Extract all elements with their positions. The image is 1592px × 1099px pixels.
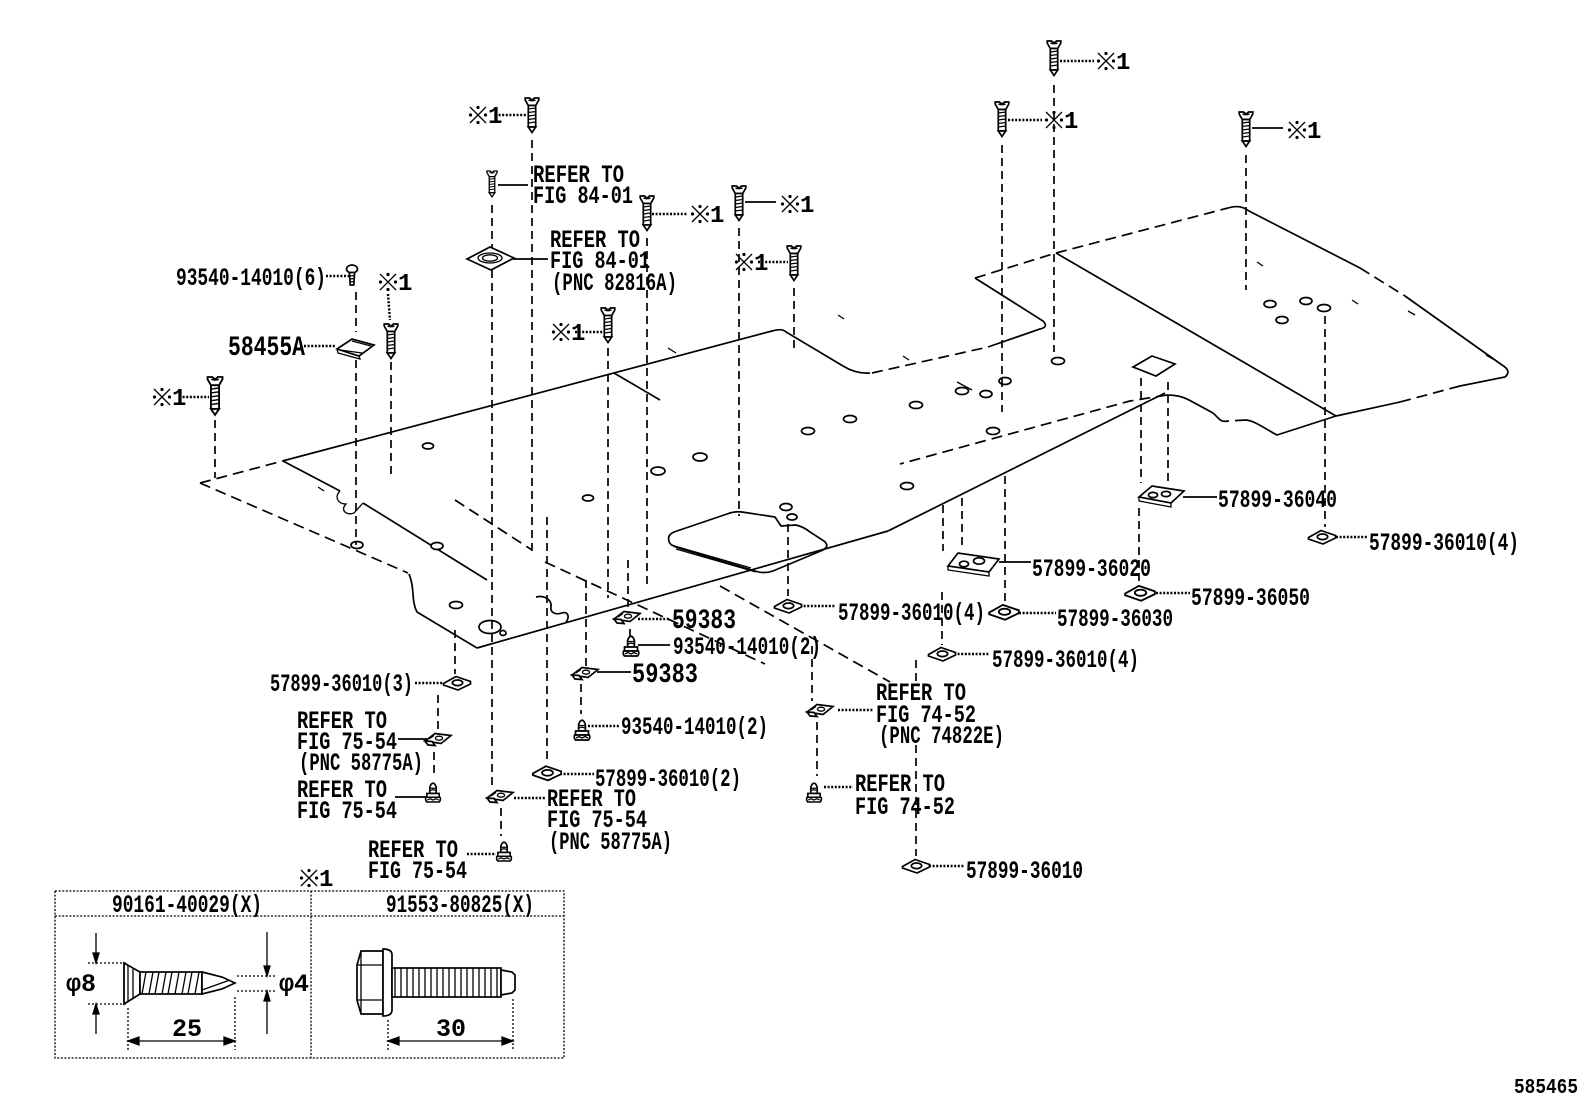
leader 36010(2) dotted bbox=[560, 773, 594, 775]
fold line curl detail bbox=[337, 491, 363, 514]
leader S11 dotted bbox=[179, 396, 209, 398]
svg-text:30: 30 bbox=[436, 1015, 466, 1044]
dimension phi8 bbox=[88, 933, 126, 1034]
svg-text:1: 1 bbox=[1064, 109, 1078, 136]
drop below 58455A bbox=[355, 360, 357, 545]
drop below S7 bbox=[1053, 85, 1055, 352]
svg-text:(PNC 82816A): (PNC 82816A) bbox=[552, 269, 677, 298]
plate 57899-36050 bbox=[1125, 586, 1155, 601]
svg-text:57899-36010(3): 57899-36010(3) bbox=[270, 670, 413, 699]
leader grommet to refer fig84-01 bbox=[513, 258, 548, 260]
leader 36010(4) left dotted bbox=[800, 605, 836, 607]
drop to clip 75-54 upper bbox=[437, 695, 439, 731]
leader 93540(6) dotted bbox=[326, 275, 350, 277]
hole middle b bbox=[787, 514, 797, 520]
leader 74-52 clip dotted bbox=[838, 709, 874, 711]
ref-mark for screw S8 bbox=[1045, 109, 1079, 136]
svg-text:57899-36010(4): 57899-36010(4) bbox=[838, 599, 985, 628]
drop 93540(6) to 58455A bbox=[355, 292, 357, 332]
svg-text:1: 1 bbox=[488, 104, 502, 131]
drop clip to stud 75-54 bottom bbox=[500, 808, 502, 836]
hole right panel b bbox=[1264, 301, 1276, 308]
clip 59383 upper bbox=[614, 612, 640, 624]
leader 93540 lower dotted bbox=[588, 725, 620, 727]
tick marks bbox=[318, 262, 1493, 491]
right panel: apex and right edge bbox=[1228, 207, 1360, 268]
svg-text:58455A: 58455A bbox=[228, 333, 305, 364]
table bolt 91553-80825 bbox=[357, 949, 515, 1016]
hole middle g bbox=[956, 388, 969, 395]
leader refer fig75-54 bottom stud dotted bbox=[467, 853, 496, 855]
svg-text:93540-14010(2): 93540-14010(2) bbox=[621, 713, 768, 742]
right panel: top-left edge (phantom) bbox=[1056, 208, 1228, 253]
hole middle g2 bbox=[980, 391, 992, 398]
leader 59383 upper dotted bbox=[638, 618, 670, 620]
phantom lower floor edge 2 bbox=[720, 586, 890, 682]
svg-text:FIG 75-54: FIG 75-54 bbox=[368, 857, 467, 886]
drop to washer 36010(4) left bbox=[787, 524, 789, 596]
svg-text:93540-14010(6): 93540-14010(6) bbox=[176, 264, 326, 293]
drop to clip 59383 lower bbox=[585, 580, 587, 666]
ref-mark above table bbox=[300, 867, 334, 894]
ref-mark for screw S5 bbox=[735, 251, 769, 278]
right panel: bottom corner to wave bbox=[1246, 416, 1336, 435]
svg-text:1: 1 bbox=[800, 193, 814, 220]
hole right panel e bbox=[1318, 305, 1331, 312]
hole middle a bbox=[780, 504, 792, 511]
drop to washer 36010(2) bbox=[546, 517, 548, 764]
svg-text:1: 1 bbox=[571, 321, 585, 348]
leader 93540 upper bbox=[638, 644, 670, 646]
svg-text:1: 1 bbox=[754, 251, 768, 278]
screw S4 bbox=[732, 186, 746, 221]
drop to plate 36030 bbox=[1004, 476, 1006, 601]
leader refer fig75-54 clip bbox=[398, 738, 427, 740]
drop below S3 bbox=[646, 238, 648, 586]
bracket 57899-36040 bbox=[1139, 486, 1184, 507]
grommet refer fig84-01 (PNC 82816A) bbox=[467, 247, 514, 270]
screw S3 bbox=[640, 196, 654, 231]
left floor panel: top edge bbox=[200, 459, 290, 483]
leader 74-52 stud dotted bbox=[824, 786, 853, 788]
drop to clip 74-52 bbox=[811, 646, 813, 701]
middle section: right edge rising bbox=[888, 393, 1165, 531]
hole middle f bbox=[910, 402, 923, 409]
bracket 57899-36020 bbox=[948, 553, 999, 576]
dimension 25 bbox=[128, 997, 235, 1050]
drop to washer 36010 bottom upper part bbox=[915, 660, 917, 684]
hole right panel a bbox=[1052, 358, 1065, 365]
left panel interior fold line bbox=[283, 461, 487, 580]
leader S1 dotted bbox=[495, 114, 527, 116]
hole left panel b bbox=[450, 602, 463, 609]
svg-text:57899-36030: 57899-36030 bbox=[1057, 605, 1173, 634]
svg-text:585465: 585465 bbox=[1514, 1077, 1578, 1099]
drop to washer 36010(3) bbox=[454, 630, 456, 674]
svg-text:1: 1 bbox=[710, 203, 724, 230]
interior fold branch at 614,373 bbox=[614, 373, 660, 400]
leader refer fig75-54 stud bbox=[395, 796, 426, 798]
hole middle h bbox=[987, 428, 1000, 435]
screw S1 bbox=[525, 98, 539, 133]
drop to clip 59383 upper bbox=[627, 560, 629, 610]
left floor panel: lower-left edge bbox=[409, 574, 477, 648]
stud screw 93540-14010(2) lower bbox=[574, 720, 590, 740]
right panel: left edge descending bbox=[1056, 253, 1336, 416]
ref-mark 1 for screw S1 bbox=[469, 104, 503, 131]
cutout opening in left panel bbox=[669, 512, 827, 573]
screw S9 bbox=[1239, 112, 1253, 147]
washer 57899-36010(2) bbox=[533, 766, 561, 780]
svg-text:57899-36040: 57899-36040 bbox=[1218, 486, 1337, 515]
svg-text:FIG 74-52: FIG 74-52 bbox=[855, 793, 955, 822]
leader 36030 dotted bbox=[1019, 612, 1056, 614]
leader 57899-36020 bbox=[999, 561, 1031, 563]
drop clip to stud 93540 bbox=[580, 684, 582, 714]
svg-text:57899-36010: 57899-36010 bbox=[966, 857, 1083, 886]
screw S8 bbox=[995, 102, 1009, 137]
stud screw refer fig75-54 bbox=[426, 783, 441, 802]
leader S7 dotted bbox=[1060, 60, 1094, 62]
clip refer fig74-52 (PNC 74822E) bbox=[807, 705, 833, 717]
drop to plate 36050 bbox=[1138, 508, 1140, 584]
leader S3 dotted bbox=[652, 213, 688, 215]
drop to washer 36010(4) right bbox=[1324, 316, 1326, 527]
drop to bracket 36020 right hole bbox=[961, 498, 963, 549]
screw S5 bbox=[787, 246, 801, 281]
ref-mark for screw S13 bbox=[379, 271, 413, 298]
svg-text:59383: 59383 bbox=[632, 660, 698, 691]
leader 36010(4) mid dotted bbox=[954, 653, 990, 655]
stud screw refer fig74-52 bbox=[807, 783, 822, 802]
svg-text:(PNC 74822E): (PNC 74822E) bbox=[879, 722, 1004, 751]
middle notch: phantom edge to right panel corner bbox=[975, 253, 1056, 278]
hole left panel a2 bbox=[431, 543, 443, 550]
dimension phi4 bbox=[237, 932, 275, 1034]
ref-mark for screw S9 bbox=[1288, 119, 1322, 146]
svg-text:(PNC 58775A): (PNC 58775A) bbox=[549, 828, 672, 857]
washer 57899-36010(4) mid bbox=[929, 648, 956, 662]
leader clip PNC58775A dotted bbox=[514, 797, 546, 799]
svg-text:(PNC 58775A): (PNC 58775A) bbox=[299, 749, 423, 778]
drop clip to stud upper bbox=[629, 629, 631, 637]
ref-mark for screw S3 bbox=[691, 203, 725, 230]
plate 57899-36030 bbox=[989, 605, 1019, 620]
svg-text:93540-14010(2): 93540-14010(2) bbox=[673, 633, 821, 662]
drop below S5 bbox=[793, 288, 795, 352]
small mounting tab on right panel bbox=[1133, 356, 1175, 376]
left floor panel: left edge (phantom) bbox=[200, 483, 408, 573]
leader S5 dotted bbox=[758, 261, 788, 263]
middle notch: solid tip bbox=[975, 278, 1045, 347]
hole middle e bbox=[844, 416, 857, 423]
hole middle c bbox=[901, 483, 914, 490]
svg-text:FIG 75-54: FIG 75-54 bbox=[297, 797, 397, 826]
hole left panel e bbox=[693, 453, 707, 461]
svg-text:1: 1 bbox=[319, 867, 333, 894]
svg-text:1: 1 bbox=[172, 386, 186, 413]
drop to washer 36010(4) mid bbox=[941, 592, 943, 645]
drop below S13 bbox=[390, 362, 392, 478]
drain plug circle bbox=[500, 631, 506, 636]
leader 36010(3) dotted bbox=[415, 682, 444, 684]
drop to bracket 36020 left hole bbox=[942, 505, 944, 551]
screw S2 bbox=[487, 171, 497, 197]
drop below S4 bbox=[738, 228, 740, 516]
leader S2 to refer fig84-01 bbox=[498, 184, 528, 186]
phantom lower floor edge 1 bbox=[545, 562, 765, 664]
ref-mark for screw S4 bbox=[781, 193, 815, 220]
dash gaps on top edge bbox=[333, 437, 348, 441]
leader S9 bbox=[1252, 127, 1283, 129]
drop below S1 bbox=[531, 140, 533, 553]
svg-text:φ4: φ4 bbox=[279, 970, 309, 999]
clip 59383 lower bbox=[572, 668, 598, 680]
left floor panel: bottom edge bbox=[477, 531, 888, 648]
plate 58455A bbox=[337, 339, 374, 359]
clip refer fig75-54 (PNC 58775A) upper bbox=[425, 734, 451, 746]
svg-text:57899-36020: 57899-36020 bbox=[1032, 555, 1151, 584]
cutout left phantom edge bbox=[455, 500, 532, 550]
table screw 90161-40029 bbox=[124, 963, 235, 1004]
leader 59383 lower bbox=[597, 671, 631, 673]
leader 57899-36040 bbox=[1183, 496, 1217, 498]
leader 36010(4) right dotted bbox=[1336, 536, 1368, 538]
hole right panel c bbox=[1300, 298, 1312, 305]
stud screw refer fig75-54 bottom bbox=[497, 842, 512, 861]
svg-text:1: 1 bbox=[1116, 50, 1130, 77]
drop below S6 bbox=[607, 348, 609, 598]
middle notch: rising phantom edge bbox=[872, 347, 988, 373]
hole left panel d bbox=[651, 467, 665, 475]
hole middle d bbox=[802, 428, 815, 435]
right panel: bottom edge with dashes bbox=[1400, 386, 1460, 402]
drop to washer 36010 bottom bbox=[915, 745, 917, 856]
drop to bracket 36040 left bbox=[1140, 378, 1142, 483]
drop below S11 bbox=[214, 420, 216, 478]
leader S4 bbox=[745, 201, 776, 203]
washer 57899-36010(3) bbox=[444, 677, 471, 691]
drop clip to stud 75-54 bbox=[433, 752, 435, 778]
dimension 30 bbox=[388, 999, 513, 1050]
screw S7 bbox=[1047, 41, 1061, 76]
svg-text:1: 1 bbox=[398, 271, 412, 298]
drain hole left panel bbox=[479, 621, 501, 634]
svg-text:57899-36010(4): 57899-36010(4) bbox=[1369, 529, 1519, 558]
screw S6 bbox=[601, 308, 615, 343]
drain heel curve bbox=[536, 597, 568, 622]
stud screw 93540-14010(2) upper bbox=[623, 636, 639, 656]
drop to bracket 36040 right bbox=[1167, 382, 1169, 485]
drop clip74-52 to stud bbox=[816, 722, 818, 776]
washer 57899-36010(4) left bbox=[775, 600, 802, 614]
screw S13 bbox=[384, 324, 398, 359]
hole left panel c bbox=[583, 495, 594, 501]
svg-text:57899-36010(4): 57899-36010(4) bbox=[992, 646, 1139, 675]
hole left panel a bbox=[351, 542, 363, 549]
ref-mark for screw S6 bbox=[552, 321, 586, 348]
svg-text:φ8: φ8 bbox=[66, 970, 96, 999]
washer 57899-36010 bottom bbox=[903, 860, 930, 874]
drop below S8 bbox=[1001, 145, 1003, 412]
hole middle i bbox=[999, 378, 1011, 385]
drop below S9 bbox=[1245, 155, 1247, 290]
table border bbox=[55, 891, 564, 1058]
hole right panel d bbox=[1276, 317, 1288, 324]
svg-text:1: 1 bbox=[1307, 119, 1321, 146]
leader 58455A dotted bbox=[304, 345, 336, 347]
leader S13 dotted bbox=[388, 294, 390, 320]
hole left panel a3 bbox=[423, 443, 434, 449]
ref-mark for screw S11 bbox=[153, 386, 187, 413]
svg-text:FIG 84-01: FIG 84-01 bbox=[533, 182, 633, 211]
drop below S2 bbox=[491, 205, 493, 788]
leader S8 dotted bbox=[1008, 119, 1042, 121]
leader S6 dotted bbox=[575, 331, 605, 333]
svg-text:57899-36050: 57899-36050 bbox=[1191, 584, 1310, 613]
leader 36010 bottom dotted bbox=[929, 865, 964, 867]
screw S11 bbox=[208, 377, 223, 415]
svg-text:25: 25 bbox=[172, 1015, 202, 1044]
leader 36050 dotted bbox=[1156, 592, 1190, 594]
clip refer fig75-54 (PNC 58775A) lower bbox=[487, 791, 513, 803]
phantom floor edge below right panel bbox=[900, 395, 1167, 464]
tiny screw 93540-14010(6) bbox=[347, 265, 358, 285]
ref-mark for screw S7 bbox=[1097, 50, 1131, 77]
washer 57899-36010(4) right bbox=[1309, 531, 1336, 545]
